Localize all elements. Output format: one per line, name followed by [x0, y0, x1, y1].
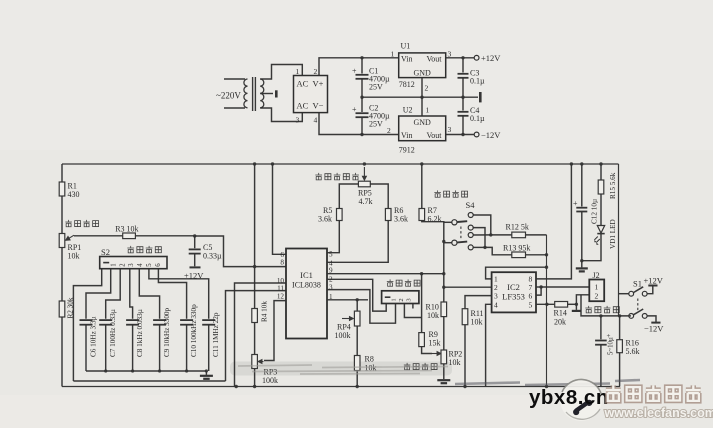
resistor R6: [385, 209, 391, 221]
wire C4 bottom lead: [462, 116, 464, 135]
wire R14 right: [568, 303, 577, 305]
wiper arrow RP5: [363, 167, 367, 180]
wire C9 bottom lead: [159, 325, 161, 371]
capacitor C8: [126, 320, 139, 325]
wire U1 Vout to +12V terminal: [446, 57, 475, 59]
junction top rail pin6: [271, 162, 274, 165]
svg-text:4: 4: [137, 263, 144, 267]
svg-text:3: 3: [128, 263, 135, 267]
svg-text:C11 1MHz 22p: C11 1MHz 22p: [212, 312, 220, 357]
junction pin10 bottom rail: [235, 385, 238, 388]
resistor R7: [419, 209, 425, 221]
wire R8 to bottom rail: [356, 371, 358, 387]
wire S2 pin to C6: [86, 269, 111, 319]
wire C11 bottom lead: [208, 325, 210, 371]
capacitor C6: [80, 320, 93, 325]
ground RP2: [437, 380, 450, 383]
wire IC1 pin9 long: [327, 273, 444, 275]
wire GND rail to U2: [421, 97, 423, 116]
svg-text:5: 5: [529, 301, 533, 310]
svg-text:R15 5.6k: R15 5.6k: [609, 172, 617, 199]
svg-text:100k: 100k: [335, 331, 351, 340]
wire RP5 left to R5: [339, 184, 358, 209]
junction capacitor rail: [205, 369, 208, 372]
capacitor C11: [202, 320, 215, 325]
wire output cap lead: [600, 316, 602, 339]
wire S4 contact2 to R13 node: [473, 228, 485, 248]
wire S2 pin to C9: [139, 269, 159, 319]
svg-text:1: 1: [296, 67, 300, 76]
switch S1 contact lower: [642, 314, 647, 319]
svg-text:10k: 10k: [68, 252, 80, 261]
svg-text:8: 8: [280, 259, 284, 267]
scan smudge streaks: [238, 365, 448, 374]
svg-text:Vin: Vin: [401, 55, 413, 64]
junction pin1 rail feedback: [545, 266, 548, 269]
terminal bar +12V S1: [648, 285, 657, 287]
wire R6 to IC1 pin4: [327, 221, 388, 263]
wire secondary top to rectifier pin1: [260, 65, 302, 80]
svg-text:IC1: IC1: [300, 270, 313, 280]
svg-text:6: 6: [529, 292, 533, 301]
resistor R4: [252, 309, 258, 323]
svg-text:1: 1: [426, 106, 430, 115]
watermark phone handset: [572, 398, 594, 416]
wire R7 to S4 common: [422, 221, 444, 288]
junction top rail R15: [599, 162, 602, 165]
watermark logo circle outline2: [566, 409, 600, 419]
resistor R5: [337, 209, 343, 221]
switch S4 contact 1: [468, 213, 473, 218]
switch S4 arm 2: [457, 241, 467, 244]
regulator U1 7812 body: [399, 53, 446, 78]
transformer T1 core: [253, 77, 256, 111]
wire U1 GND: [421, 78, 423, 98]
svg-text:R14: R14: [554, 309, 567, 318]
wire IC1 pin11 to inner rail: [226, 291, 287, 381]
wire RP1 wiper to R3: [74, 235, 123, 237]
potentiometer RP5: [358, 181, 370, 187]
svg-text:5~10µ: 5~10µ: [608, 337, 615, 355]
wire R4 to RP3: [254, 323, 256, 355]
terminal bar -12V S1: [651, 322, 660, 324]
svg-text:U2: U2: [403, 106, 413, 115]
svg-text:ICL8038: ICL8038: [292, 281, 321, 290]
junction capacitor rail: [158, 369, 161, 372]
wire pin9 junction to R9: [421, 274, 423, 333]
svg-text:2: 2: [398, 298, 405, 301]
svg-text:2: 2: [595, 292, 599, 301]
capacitor C1: [356, 75, 369, 79]
junction S4 common: [442, 240, 445, 243]
svg-text:6: 6: [155, 263, 162, 267]
wire R3 to C5 junction: [135, 235, 194, 237]
junction pin9 R9: [420, 272, 423, 275]
wire right border to S1 pole: [619, 293, 629, 295]
capacitor C2: [356, 113, 369, 117]
wire R13 right lead: [526, 254, 547, 256]
svg-text:100k: 100k: [262, 376, 278, 385]
wire secondary bottom to rectifier pin3: [260, 108, 302, 122]
svg-text:2: 2: [314, 67, 318, 76]
resistor R13: [512, 252, 526, 258]
svg-text:3: 3: [448, 125, 452, 134]
potentiometer RP1: [59, 234, 65, 248]
label pinlv xuanze (freq select): [127, 246, 161, 253]
switch S4 pole 2: [452, 240, 457, 245]
svg-text:4: 4: [314, 116, 318, 125]
wire top rail to R4 chain: [254, 164, 256, 309]
svg-text:R4 10k: R4 10k: [261, 301, 269, 322]
wire S1 upper to +12V bar: [647, 286, 653, 294]
wire S2 pin to C7: [106, 269, 121, 319]
svg-text:3: 3: [494, 292, 498, 301]
wire IC2 pin3 to R11: [465, 296, 492, 309]
wire R15 to VD1: [600, 194, 602, 226]
label fuzhi shuaijian (amplitude atten): [434, 190, 467, 197]
wire top rail to R7: [421, 164, 423, 209]
svg-text:S2: S2: [101, 247, 110, 257]
wire C3 bottom lead: [462, 78, 464, 97]
svg-text:3.6k: 3.6k: [394, 215, 408, 224]
svg-text:R12 5k: R12 5k: [506, 223, 529, 232]
wire IC1 pin12 to RP3 wiper: [264, 301, 286, 361]
junction C2 bottom: [360, 133, 363, 136]
svg-text:+: +: [573, 199, 578, 208]
svg-text:C10 100kHz 330p: C10 100kHz 330p: [190, 304, 198, 357]
terminal -12V: [474, 132, 479, 137]
switch S4 contact 2: [468, 225, 473, 230]
resistor R3: [123, 233, 136, 239]
wire C2 top lead: [361, 97, 363, 112]
wire C5 top lead: [194, 236, 196, 248]
junction top rail R7: [420, 162, 423, 165]
junction C12 VD1 ground: [580, 259, 583, 262]
switch S4 contact 3: [468, 233, 473, 238]
svg-text:10k: 10k: [427, 311, 439, 320]
resistor R1: [59, 182, 65, 196]
junction R3 C5: [193, 234, 196, 237]
svg-text:10k: 10k: [449, 358, 461, 367]
ground stem C11: [205, 371, 207, 375]
wire S4 pole1 stub: [444, 221, 452, 223]
potentiometer RP4: [354, 311, 360, 326]
wire R5 to IC1 pin5: [327, 221, 339, 253]
svg-text:Vout: Vout: [427, 131, 443, 140]
junction pin1 RP4: [356, 298, 359, 301]
junction R12 input: [489, 233, 492, 236]
svg-text:LF353: LF353: [502, 292, 525, 302]
svg-text:430: 430: [68, 190, 80, 199]
wire RP5 right to R6: [370, 184, 388, 209]
svg-text:3.6k: 3.6k: [318, 215, 332, 224]
S2 common dash: [103, 262, 109, 264]
junction capacitor rail: [104, 369, 107, 372]
wire R10 to RP2: [443, 317, 445, 350]
ground center tap bar: [275, 90, 278, 97]
diode VD1 LED: [594, 226, 604, 245]
svg-text:VD1 LED: VD1 LED: [609, 219, 617, 249]
svg-text:7812: 7812: [399, 80, 415, 89]
switch S4 arm 1: [457, 220, 467, 223]
resistor R12: [512, 232, 526, 238]
gang link S4 dashed: [460, 227, 462, 240]
potentiometer RP3: [252, 355, 258, 369]
wire pin7 to pin6 loop: [536, 287, 541, 295]
wire IC1 pin1: [327, 299, 368, 301]
ground stem C12: [581, 261, 583, 268]
svg-text:AC: AC: [297, 101, 309, 111]
wire IC1 pin2 to S3: [327, 279, 386, 311]
wire C1 bottom lead: [361, 79, 363, 97]
junction pin7: [539, 285, 542, 288]
switch S1 pole upper: [629, 291, 634, 296]
junction RP3 bottom rail: [253, 385, 256, 388]
wire S1 lower to -12V bar: [647, 316, 656, 323]
svg-text:S4: S4: [466, 200, 476, 210]
junction output cap: [599, 314, 602, 317]
svg-text:V+: V+: [313, 79, 324, 89]
wire IC2 pin4 down: [486, 304, 492, 386]
svg-text:20k: 20k: [554, 318, 566, 327]
svg-text:AC: AC: [297, 79, 309, 89]
wire inner ground rail: [73, 380, 225, 382]
wire top +12V rail of main box: [62, 163, 619, 165]
terminal bar +12V C5: [190, 266, 201, 268]
svg-text:S1: S1: [633, 279, 642, 289]
op-amp IC1 ICL8038 body: [286, 249, 327, 339]
switch S1 lever lower: [634, 309, 644, 315]
wire IC2 pin1 loop: [486, 267, 547, 279]
S3 common dash: [385, 296, 391, 298]
svg-text:15k: 15k: [429, 339, 441, 348]
wire R11 to bottom rail: [464, 325, 466, 387]
label pinlv xitiao (freq fine adjust): [65, 220, 98, 227]
potentiometer RP2: [441, 350, 447, 364]
wire rectifier pin2 to +12V rail: [319, 58, 399, 76]
wire S3 stub3 to R9 vertical: [404, 304, 421, 318]
svg-text:25V: 25V: [369, 83, 383, 92]
wire S4 vertical to R10: [443, 287, 445, 302]
junction R14 output: [575, 303, 578, 306]
svg-text:C7 100Hz 0.33µ: C7 100Hz 0.33µ: [109, 309, 117, 357]
wire C7 bottom lead: [105, 325, 107, 371]
svg-text:0.1µ: 0.1µ: [470, 114, 485, 123]
transformer T1 secondary coil: [260, 79, 264, 108]
wire C2 bottom lead: [361, 117, 363, 134]
wire C3 top lead: [462, 58, 464, 73]
svg-text:C6 10Hz 3.3µ: C6 10Hz 3.3µ: [90, 316, 98, 357]
svg-text:7912: 7912: [399, 146, 415, 155]
switch S1 lever upper: [634, 287, 644, 293]
wiper arrow RP2: [432, 352, 441, 356]
svg-text:1: 1: [595, 283, 599, 292]
label xinhao shuchu (signal output): [585, 306, 619, 313]
switch S4 contact 4: [468, 245, 473, 250]
junction output R16: [618, 314, 621, 317]
junction C1 top: [360, 56, 363, 59]
svg-text:5: 5: [146, 263, 153, 267]
svg-text:Vout: Vout: [427, 55, 443, 64]
wire secondary center tap: [260, 93, 273, 95]
wire junction to IC1 pin8: [195, 236, 286, 267]
wire C10 bottom lead: [186, 325, 188, 371]
wire pin7 to J2 pin1: [541, 286, 589, 288]
wire feedback vertical: [546, 235, 548, 387]
svg-text:V−: V−: [313, 101, 324, 111]
resistor R9: [419, 333, 425, 347]
svg-text:−12V: −12V: [481, 130, 501, 140]
label fudu weitiao (amplitude trim): [404, 363, 437, 370]
watermark logo circle outline: [562, 379, 602, 395]
svg-text:+12V: +12V: [644, 276, 664, 286]
connector J2 body: [589, 280, 604, 302]
wire IC1 pin6 to top rail: [273, 164, 287, 254]
wire RP4 to R8: [356, 326, 358, 356]
wire S2 pin to C11: [149, 269, 209, 319]
wire right border: [618, 164, 620, 316]
wire IC2 pin8 to top rail: [536, 164, 571, 279]
svg-text:−12V: −12V: [644, 324, 664, 334]
junction top rail IC2 supply: [570, 162, 573, 165]
junction top rail R4 chain: [253, 162, 256, 165]
junction C2 top: [360, 96, 363, 99]
capacitor C12: [576, 208, 587, 212]
junction pin5 feedback: [545, 303, 548, 306]
junction R8 bottom rail: [356, 385, 359, 388]
svg-text:www.elecfans.com: www.elecfans.com: [604, 406, 713, 420]
wire IC2 pin2: [444, 286, 492, 288]
svg-text:1: 1: [391, 298, 398, 301]
wire R12 right lead: [526, 234, 547, 236]
svg-text:R8: R8: [365, 355, 374, 364]
svg-text:25V: 25V: [369, 120, 383, 129]
electrolytic output capacitor: [595, 341, 607, 345]
svg-text:5: 5: [329, 251, 333, 259]
wire R15 top lead: [600, 164, 602, 180]
svg-text:10k: 10k: [471, 318, 483, 327]
svg-text:C12 10µ: C12 10µ: [591, 199, 599, 224]
svg-text:0.1µ: 0.1µ: [470, 77, 485, 86]
svg-text:3: 3: [296, 116, 300, 125]
wire ground rail: [362, 96, 478, 98]
svg-text:2: 2: [119, 263, 126, 267]
scan smudge band under circuit: [230, 362, 452, 376]
capacitor C3: [458, 74, 469, 78]
wire output to J2 pin2: [576, 295, 589, 305]
wire S4 contact1 to R12: [473, 215, 491, 235]
junction pin8 wire R4 chain: [253, 265, 256, 268]
resistor R16: [617, 340, 623, 353]
junction C4 bottom: [461, 133, 464, 136]
switch S1 contact upper: [642, 291, 647, 296]
junction C3 bottom: [461, 96, 464, 99]
regulator U2 7912 body: [399, 116, 446, 141]
capacitor C9: [153, 320, 166, 325]
capacitor C10: [180, 320, 193, 325]
switch S4 pole 1: [452, 220, 457, 225]
svg-text:12: 12: [277, 293, 285, 301]
svg-text:4: 4: [494, 301, 498, 310]
wire C12 bottom lead: [581, 212, 583, 261]
gang link S1 dashed: [637, 299, 639, 312]
wire C4 top lead: [462, 97, 464, 110]
ground C12 VD1: [576, 268, 588, 271]
wire IC1 pin3 to S3: [327, 290, 396, 324]
wire IC1 pin10 to bottom rail: [235, 283, 287, 387]
svg-text:GND: GND: [414, 118, 432, 127]
svg-text:+: +: [352, 67, 357, 76]
junction top rail RP5: [363, 162, 366, 165]
wire R9 to RP2 wiper: [422, 347, 432, 354]
wire primary top lead: [224, 78, 245, 80]
switch S2 body: [100, 257, 167, 269]
wire R16 top lead: [619, 316, 621, 340]
wire S2 common to inner ground rail: [73, 269, 101, 381]
svg-text:U1: U1: [401, 42, 411, 51]
junction pin9 S4 vertical: [442, 272, 445, 275]
svg-text:11: 11: [277, 285, 284, 293]
junction S4 vertical pin2 wire: [442, 286, 445, 289]
resistor R15: [598, 180, 604, 194]
wire C1 top lead: [361, 58, 363, 74]
watermark dianzi fashaoyou outline: [606, 385, 701, 400]
wire R2 to bottom rail: [61, 317, 63, 387]
wire VD1 to ground junction: [582, 234, 601, 261]
resistor R8: [354, 356, 360, 371]
wire capacitor bank bottom rail: [86, 370, 206, 372]
svg-text:R3 10k: R3 10k: [115, 225, 138, 234]
wire output down to signal line: [581, 295, 631, 316]
op-amp IC2 LF353 body: [492, 272, 536, 312]
wire S2 pin to C8: [130, 269, 133, 319]
junction R11 bottom rail: [463, 385, 466, 388]
paper tone variation: [0, 0, 713, 150]
wire primary bottom lead: [224, 107, 245, 109]
wiper arrow RP3: [258, 360, 263, 364]
capacitor C7: [99, 320, 112, 325]
transformer T1 primary coil: [244, 79, 248, 108]
svg-text:+12V: +12V: [481, 53, 501, 63]
ground bar R14: [572, 310, 581, 312]
bridge rectifier AC block: [294, 76, 328, 113]
wire S4 contact4 to R13: [473, 246, 485, 248]
switch S1 pole lower: [629, 314, 634, 319]
wire RP3 to bottom rail: [254, 369, 256, 387]
svg-text:GND: GND: [414, 69, 432, 78]
ground stem R14: [575, 304, 577, 310]
wiper arrow RP4: [342, 317, 353, 321]
svg-text:+: +: [352, 105, 357, 114]
svg-text:5.6k: 5.6k: [626, 347, 640, 356]
wire R12 left lead: [491, 234, 512, 236]
wire C6 bottom lead: [85, 325, 87, 371]
resistor R14: [555, 302, 568, 308]
watermark dianzi fashaoyou fill: [606, 385, 701, 400]
terminal +12V: [474, 55, 479, 60]
junction R13 input: [483, 246, 486, 249]
junction U1 GND rail: [420, 96, 423, 99]
label boxing xuanze (waveform select): [387, 279, 420, 286]
paper tone lower: [0, 395, 530, 428]
svg-text:Vin: Vin: [401, 131, 413, 140]
wire C8 bottom lead: [132, 325, 134, 371]
wire S3 stub4: [412, 304, 414, 309]
wire IC2 pin7 stub: [536, 286, 541, 288]
resistor R10: [441, 302, 447, 317]
junction feedback bottom rail: [545, 385, 548, 388]
wire S4 pole2 stub: [444, 242, 452, 244]
